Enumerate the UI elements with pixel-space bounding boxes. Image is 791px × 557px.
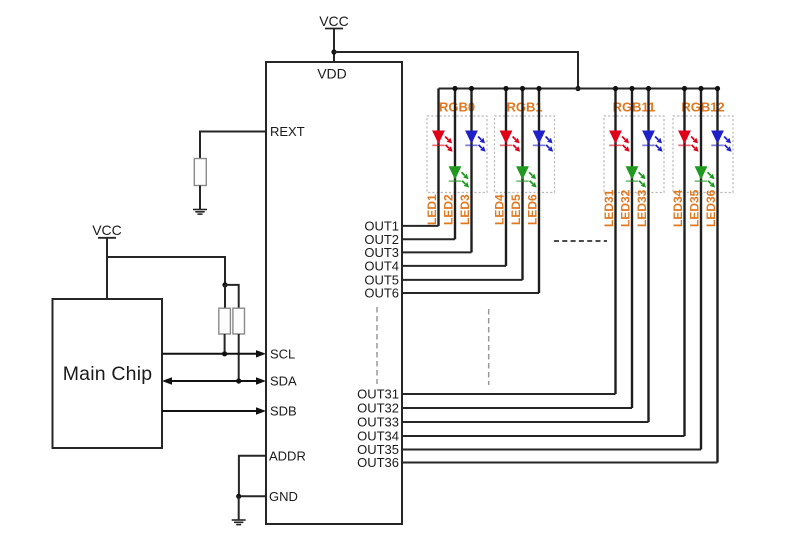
LED32 green (626, 166, 647, 187)
resistor pull-up R_SDA (233, 308, 245, 334)
svg-text:Main Chip: Main Chip (63, 363, 153, 385)
svg-text:SDA: SDA (270, 374, 297, 389)
LED2 green (449, 166, 470, 187)
svg-text:OUT32: OUT32 (357, 401, 399, 416)
svg-text:VCC: VCC (92, 222, 122, 238)
svg-text:LED6: LED6 (526, 194, 540, 225)
svg-text:LED35: LED35 (688, 189, 702, 227)
node VDD junction (331, 49, 336, 54)
wire LED36 column (716, 89, 718, 463)
wire OUT35 (402, 449, 701, 451)
svg-text:OUT4: OUT4 (364, 259, 399, 274)
wire SDB (162, 410, 257, 412)
wire R_SCL to SCL (224, 334, 226, 354)
wire OUT32 (402, 407, 632, 409)
svg-text:LED1: LED1 (425, 194, 439, 225)
svg-text:LED36: LED36 (704, 189, 718, 227)
wire LED35 column (700, 89, 702, 450)
ground (GND) (232, 520, 246, 525)
svg-text:RGB1: RGB1 (506, 100, 542, 115)
svg-text:LED4: LED4 (493, 194, 507, 225)
svg-text:OUT31: OUT31 (357, 387, 399, 402)
LED36 blue (711, 131, 732, 152)
wire OUT4 (402, 265, 506, 267)
IC U1 driver box (266, 62, 402, 524)
wire to right pull-up (225, 285, 239, 308)
node SCL junction (222, 351, 227, 356)
svg-text:ADDR: ADDR (269, 449, 306, 464)
wire SCL (162, 353, 257, 355)
wire OUT1 (402, 225, 439, 227)
dashed continuation (horizontal) (554, 240, 607, 242)
wire REXT to resistor (200, 132, 266, 159)
svg-text:LED33: LED33 (635, 189, 649, 227)
LED33 blue (642, 131, 663, 152)
wire LED33 column (647, 89, 649, 423)
power symbol VCC (left) (92, 222, 122, 238)
resistor pull-up R_SCL (219, 308, 231, 334)
LED5 green (516, 166, 537, 187)
RGB module RGB12 dashed outline (673, 116, 733, 193)
svg-text:LED3: LED3 (458, 194, 472, 225)
wire OUT5 (402, 279, 523, 281)
LED31 red (609, 131, 630, 152)
svg-text:LED32: LED32 (619, 189, 633, 227)
wire SDA (171, 380, 257, 382)
svg-text:OUT36: OUT36 (357, 455, 399, 470)
ground (REXT) (193, 210, 207, 215)
wire to left pull-up (224, 285, 226, 308)
wire GND to ground (238, 496, 240, 520)
LED4 red (500, 131, 520, 152)
dashed continuation (vertical, left) (376, 307, 378, 384)
svg-text:VDD: VDD (317, 66, 347, 82)
wire OUT6 (402, 292, 539, 294)
node pull-up junction (222, 282, 227, 287)
rail junction dots (452, 86, 720, 91)
wire VCC rail to LED feed (334, 52, 578, 89)
wire resistor to ground (199, 186, 201, 210)
svg-text:RGB0: RGB0 (439, 100, 475, 115)
svg-text:LED31: LED31 (602, 189, 616, 227)
wire R_SDA to SDA (238, 334, 240, 381)
LED3 blue (465, 131, 486, 152)
svg-text:LED2: LED2 (442, 194, 456, 225)
svg-text:VCC: VCC (319, 13, 349, 29)
svg-text:REXT: REXT (270, 124, 305, 139)
wire LED2 column (454, 89, 456, 240)
wire VCC branch to pull-ups (107, 257, 225, 285)
RGB module RGB0 dashed outline (427, 116, 487, 193)
RGB module RGB11 dashed outline (604, 116, 664, 193)
wire OUT36 (402, 462, 718, 464)
wire LED5 column (521, 89, 523, 280)
wire LED31 column (614, 89, 616, 395)
svg-text:LED5: LED5 (509, 194, 523, 225)
wire OUT2 (402, 238, 455, 240)
wire OUT34 (402, 435, 685, 437)
svg-text:LED34: LED34 (671, 189, 685, 227)
LED6 blue (533, 131, 554, 152)
node GND junction (236, 494, 241, 499)
wire LED supply rail (439, 88, 718, 90)
wire LED34 column (683, 89, 685, 437)
wire LED32 column (631, 89, 633, 409)
wire VCC to VDD node (333, 29, 335, 62)
wire LED6 column (538, 89, 540, 294)
svg-text:SDB: SDB (270, 404, 297, 419)
wire LED3 column (470, 89, 472, 253)
wire GND (239, 495, 266, 497)
wire LED1 column (437, 89, 439, 226)
dashed continuation (vertical, right) (488, 309, 490, 385)
RGB module RGB1 dashed outline (495, 116, 555, 193)
Main Chip box (53, 299, 163, 448)
node LED rail feed junction (575, 86, 580, 91)
svg-text:SCL: SCL (270, 347, 295, 362)
wire OUT3 (402, 251, 472, 253)
wire LED4 column (505, 89, 507, 266)
resistor REXT (194, 159, 206, 186)
svg-text:OUT33: OUT33 (357, 415, 399, 430)
power symbol VCC (top) (319, 13, 349, 29)
svg-text:GND: GND (269, 489, 298, 504)
wire OUT33 (402, 421, 649, 423)
wire ADDR strap (239, 456, 266, 497)
wire OUT31 (402, 393, 616, 395)
LED34 red (678, 131, 699, 152)
LED35 green (695, 166, 716, 187)
wire VCC to Main Chip (106, 238, 108, 299)
node SDA junction (236, 378, 241, 383)
svg-text:OUT6: OUT6 (364, 286, 399, 301)
LED1 red (432, 131, 453, 152)
